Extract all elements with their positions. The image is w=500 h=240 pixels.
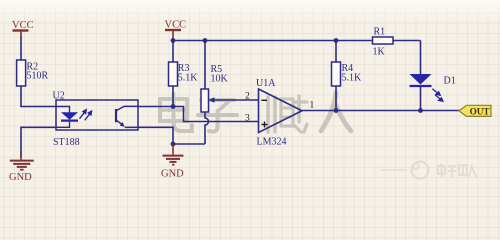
- wire R4 to output: [335, 86, 337, 111]
- svg-text:R1: R1: [374, 27, 386, 38]
- watermark bottom right logo: [381, 162, 429, 179]
- node output at D1: [418, 108, 423, 113]
- wire R2 to U2 pin1: [21, 86, 56, 107]
- wire D1 to output: [420, 86, 422, 111]
- svg-text:GND: GND: [161, 169, 184, 180]
- svg-text:U2: U2: [53, 91, 65, 102]
- svg-text:5.1K: 5.1K: [342, 73, 363, 84]
- U2 phototransistor: [116, 106, 138, 127]
- svg-text:5.1K: 5.1K: [178, 73, 199, 84]
- optocoupler U2: [53, 91, 139, 149]
- svg-text:ST188: ST188: [53, 137, 80, 148]
- wire VCC1 to R2: [20, 36, 22, 60]
- power port VCC2: [165, 20, 187, 42]
- wire R5 wiper to op-amp pin2: [213, 99, 259, 101]
- svg-text:1: 1: [310, 101, 315, 111]
- svg-text:3: 3: [245, 113, 250, 123]
- wire VCC rail: [173, 40, 421, 42]
- svg-text:510R: 510R: [27, 71, 49, 82]
- wire U2 emitter to node: [138, 127, 173, 144]
- svg-text:D1: D1: [444, 76, 456, 87]
- svg-text:U1A: U1A: [256, 78, 276, 89]
- D1 light arrows: [432, 89, 443, 102]
- node VCC rail at R3: [171, 38, 176, 43]
- ground GND1: [9, 151, 34, 183]
- resistor R2: [17, 60, 49, 86]
- node VCC rail at R5: [203, 38, 208, 43]
- wire op-amp output: [302, 110, 460, 112]
- svg-text:2: 2: [245, 91, 250, 101]
- potentiometer R5: [201, 64, 229, 112]
- U2 internal LED: [56, 107, 78, 128]
- wire rail to R3: [172, 41, 174, 63]
- op-amp U1A: [245, 78, 315, 148]
- wire R5 bottom with hop over pin3 wire: [205, 112, 209, 144]
- svg-text:10K: 10K: [211, 74, 229, 85]
- svg-text:LM324: LM324: [257, 137, 287, 148]
- wire rail to R5: [204, 41, 206, 90]
- node emitter junction: [171, 142, 176, 147]
- wire R1 to D1: [420, 41, 422, 75]
- wire emitter node to R5 bottom: [173, 143, 205, 145]
- port OUT: [459, 105, 491, 116]
- LED D1: [410, 74, 456, 87]
- svg-text:1K: 1K: [373, 47, 386, 58]
- ground GND2: [161, 144, 184, 180]
- node collector junction: [171, 104, 176, 109]
- power port VCC1: [12, 20, 34, 38]
- resistor R4: [332, 62, 363, 86]
- wire U2 collector to node: [138, 106, 173, 108]
- watermark bottom right text: [438, 164, 477, 178]
- svg-text:VCC: VCC: [12, 20, 34, 31]
- watermark center 电子懒人: [160, 93, 351, 132]
- wire R3 to collector node: [172, 86, 174, 107]
- wire rail to R4: [335, 41, 337, 63]
- U2 light arrows: [80, 110, 92, 121]
- node VCC rail at R4: [334, 38, 339, 43]
- resistor R3: [169, 62, 199, 86]
- svg-text:OUT: OUT: [470, 106, 490, 116]
- svg-text:GND: GND: [9, 172, 32, 183]
- svg-text:VCC: VCC: [165, 20, 187, 31]
- node output at R4: [334, 108, 339, 113]
- resistor R1: [373, 27, 394, 58]
- wire collector node to op-amp pin3: [173, 107, 259, 122]
- wire U2 pin2 to GND1: [21, 127, 56, 157]
